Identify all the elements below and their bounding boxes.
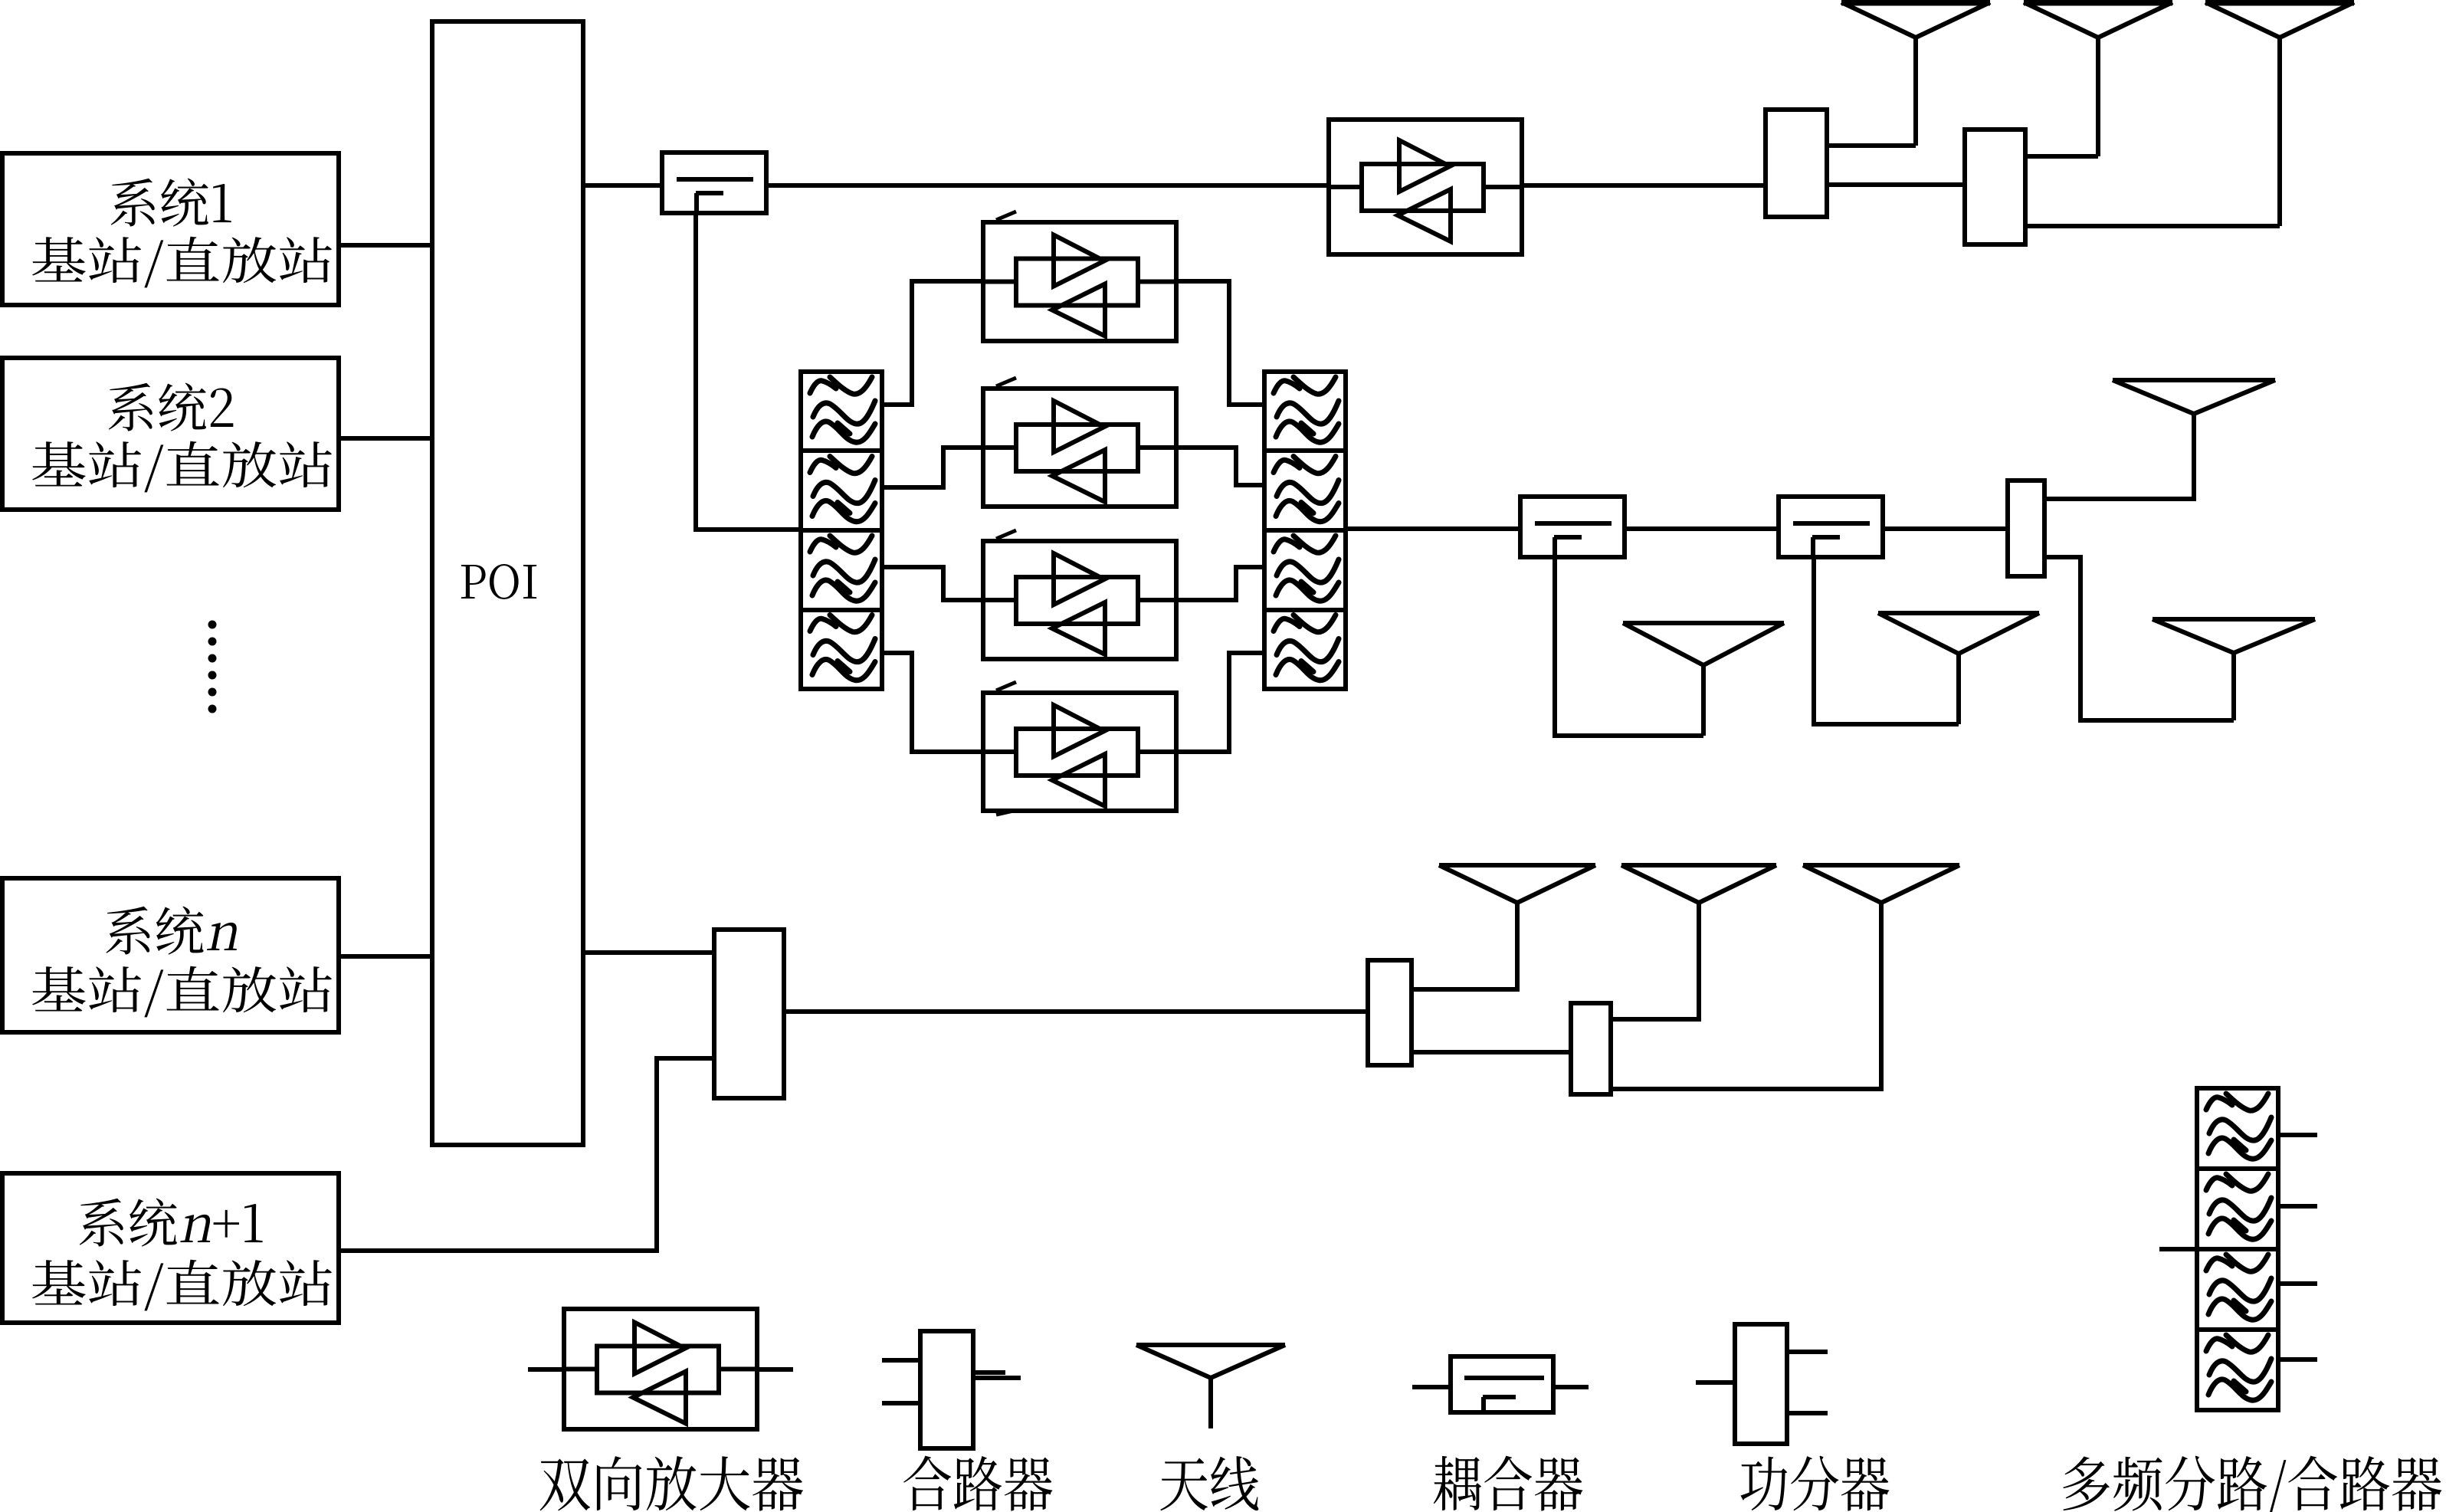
legend bank output stub 3 xyxy=(2279,1281,2317,1286)
wire CB to power splitter PS2 xyxy=(784,1009,1368,1014)
legend bank output stub 1 xyxy=(2279,1133,2317,1137)
wire right bank to coupler CP1 xyxy=(1345,526,1520,531)
legend combiner input wire 2 xyxy=(882,1401,920,1405)
power splitter S1 (top branch) xyxy=(1766,110,1827,217)
antenna M2 xyxy=(1878,613,2039,724)
legend label 天线 xyxy=(1160,1456,1258,1510)
power splitter PS2 xyxy=(1368,960,1412,1065)
wire POI to top coupler xyxy=(583,183,662,188)
legend power splitter symbol xyxy=(1735,1324,1787,1444)
wire CP2 coupled port to antenna M2 xyxy=(1814,557,1959,724)
power splitter PS3 xyxy=(1571,1003,1611,1094)
wire system2 to POI xyxy=(339,436,432,441)
wire PS1 top output to antenna R1 xyxy=(2044,414,2194,499)
wire POI to combiner CB xyxy=(583,950,714,955)
wire A3 to right bank cell3 xyxy=(1176,567,1264,600)
label 系统2 xyxy=(109,383,233,431)
antenna B1 xyxy=(1439,865,1595,989)
wire CP2 to power splitter PS1 xyxy=(1883,526,2008,531)
power splitter S2 (top branch) xyxy=(1965,130,2025,244)
wire S2 bottom output to antenna T3 xyxy=(2025,224,2280,228)
label POI xyxy=(461,564,536,599)
box system2 (系统2 基站/直放站) xyxy=(2,358,339,510)
antenna T3 xyxy=(2205,2,2354,226)
legend label 耦合器 xyxy=(1434,1456,1583,1511)
wire A4 to right bank cell4 xyxy=(1176,653,1264,752)
wire top coupler to top amplifier xyxy=(765,183,1329,188)
antenna R2 xyxy=(2153,619,2315,720)
bidirectional amplifier A2 xyxy=(983,389,1176,507)
wire CP1 coupled port to antenna M1 xyxy=(1555,557,1703,736)
bidirectional amplifier A1 xyxy=(983,222,1176,341)
legend coupler symbol xyxy=(1451,1356,1553,1412)
wire left bank cell3 to A3 xyxy=(882,567,983,600)
legend label 功分器 xyxy=(1740,1456,1889,1511)
legend multi-band filter bank xyxy=(2197,1088,2278,1410)
wire PS2 top output to antenna B1 xyxy=(1412,903,1517,989)
antenna T2 xyxy=(2024,2,2172,156)
legend combiner output tick xyxy=(973,1370,1005,1375)
multi-band combiner (left filter bank) xyxy=(801,372,882,689)
wire PS2 bottom output to PS3 xyxy=(1412,1050,1571,1054)
label 系统1 xyxy=(111,179,231,227)
wire S1 to splitter S2 xyxy=(1827,182,1965,187)
wire top coupler coupled port to left filter bank xyxy=(696,213,801,530)
wire system-n+1 to combiner xyxy=(339,1058,714,1251)
antenna B2 xyxy=(1621,865,1776,1019)
coupler CP1 xyxy=(1520,497,1625,557)
bidirectional amplifier A4 xyxy=(983,693,1176,811)
legend bank input wire xyxy=(2159,1247,2197,1251)
legend amp right wire xyxy=(758,1367,793,1372)
power splitter PS1 xyxy=(2008,480,2044,576)
label 基站/直放站 (system1) xyxy=(32,237,332,288)
legend label 合路器 xyxy=(903,1456,1052,1511)
wire CP1 to CP2 xyxy=(1625,526,1779,531)
legend splitter output wire 2 xyxy=(1787,1411,1828,1415)
wire left bank cell1 to A1 xyxy=(882,281,983,405)
legend splitter output wire 1 xyxy=(1787,1350,1828,1354)
antenna T1 xyxy=(1841,2,1990,146)
wire S2 top output to antenna T2 xyxy=(2025,154,2098,159)
wire left bank cell4 to A4 xyxy=(882,653,983,752)
label 基站/直放站 (system2) xyxy=(32,441,332,493)
legend coupler right wire xyxy=(1553,1385,1589,1389)
label 系统n+1 xyxy=(80,1199,263,1247)
combiner CB (bottom branch) xyxy=(714,930,784,1098)
wire left bank cell2 to A2 xyxy=(882,448,983,487)
wire PS1 bottom output to antenna R2 xyxy=(2044,557,2234,720)
label 基站/直放站 (system n) xyxy=(32,966,332,1018)
legend combiner symbol xyxy=(920,1331,973,1448)
legend combiner output wire xyxy=(973,1376,1021,1380)
multi-band splitter (right filter bank) xyxy=(1264,372,1346,689)
vertical ellipsis dots xyxy=(208,621,217,713)
wire PS3 top output to antenna B2 xyxy=(1611,903,1699,1019)
label 基站/直放站 (system n+1) xyxy=(32,1260,332,1311)
arrow ticks at amplifier corners xyxy=(996,212,1016,815)
wire system-n to POI xyxy=(339,954,432,959)
wire system1 to POI xyxy=(339,243,432,248)
box system-n (系统n 基站/直放站) xyxy=(2,878,339,1032)
legend antenna symbol xyxy=(1136,1345,1285,1428)
antenna B3 xyxy=(1803,865,1959,1089)
box system-n+1 (系统n+1 基站/直放站) xyxy=(2,1173,339,1323)
box system1 (系统1 基站/直放站) xyxy=(2,153,339,305)
legend bank output stub 2 xyxy=(2279,1204,2317,1209)
wire top amplifier to splitter S1 xyxy=(1522,183,1766,188)
label 系统n xyxy=(106,907,242,955)
legend label 多频分路/合路器 xyxy=(2063,1456,2441,1512)
antenna R1 xyxy=(2113,380,2275,499)
legend label 双向放大器 xyxy=(540,1456,803,1510)
POI box xyxy=(432,21,583,1145)
legend coupler left wire xyxy=(1412,1385,1451,1389)
legend splitter input wire xyxy=(1696,1380,1735,1385)
wire A1 to right bank cell1 xyxy=(1176,281,1264,405)
legend amp left wire xyxy=(528,1367,564,1372)
coupler (top branch) xyxy=(662,153,766,213)
legend combiner input wire 1 xyxy=(882,1358,920,1363)
legend bidirectional amplifier symbol xyxy=(564,1309,757,1429)
wire PS3 bottom output to antenna B3 xyxy=(1611,903,1881,1089)
coupler CP2 xyxy=(1779,497,1883,557)
bidirectional amplifier A3 xyxy=(983,541,1176,659)
antenna M1 xyxy=(1623,623,1784,736)
legend bank output stub 4 xyxy=(2279,1357,2317,1362)
bidirectional amplifier (top branch) xyxy=(1329,120,1522,254)
wire S1 top output to antenna T1 xyxy=(1827,143,1916,148)
wire A2 to right bank cell2 xyxy=(1176,448,1264,485)
